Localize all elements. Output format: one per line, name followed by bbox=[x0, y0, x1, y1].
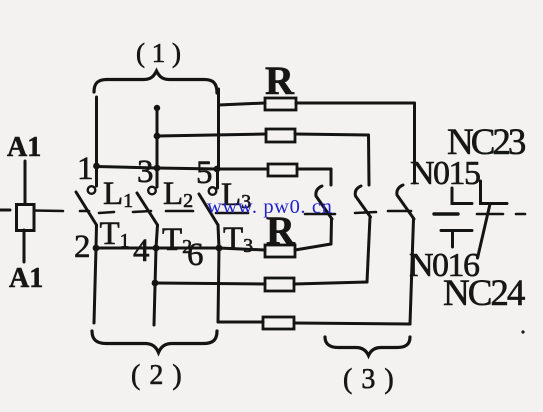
label 1 bbox=[77, 151, 94, 187]
wire stub pole3 bbox=[216, 169, 219, 188]
svg-text:N015: N015 bbox=[410, 155, 480, 192]
wire pole3 top corner to row1 bbox=[217, 106, 220, 169]
wire row2 right bbox=[295, 134, 369, 135]
brace (3) bottom bbox=[325, 337, 410, 356]
label T3 bbox=[223, 221, 253, 257]
wire contact C bottom bbox=[410, 219, 414, 324]
wire pole1 top bbox=[95, 97, 98, 166]
watermark www.pw0.cn bbox=[207, 196, 332, 218]
wire pole1 tail bbox=[94, 248, 96, 323]
wire row4 right bbox=[295, 244, 331, 250]
contact NO15 T actuator bbox=[441, 231, 472, 248]
node junction row2 tap bbox=[154, 133, 161, 140]
contact NC24 blade bbox=[478, 204, 491, 258]
label (2) bbox=[131, 360, 183, 391]
wire row2 left bbox=[157, 134, 266, 136]
svg-text:2: 2 bbox=[74, 229, 91, 265]
label R middle bbox=[266, 208, 296, 253]
wire edge dash left bbox=[0, 209, 10, 212]
wire contact A top bbox=[330, 169, 333, 185]
label T1 bbox=[100, 216, 130, 252]
resistor R row3 bbox=[268, 164, 297, 176]
wire pole2 tail bbox=[154, 248, 156, 325]
wire coil bottom lead bbox=[23, 230, 26, 262]
label L2 bbox=[163, 176, 193, 212]
label L1 bbox=[103, 176, 133, 212]
node junction row5 tap bbox=[152, 280, 159, 287]
label (1) bbox=[136, 38, 181, 68]
wire row6 right bbox=[294, 323, 410, 324]
wire bus 1-3-5 bbox=[97, 167, 218, 170]
wire pole1 lower bbox=[95, 225, 99, 248]
contact B blade bbox=[355, 186, 370, 217]
resistor R row1 bbox=[265, 98, 296, 110]
wire row6 left bbox=[218, 321, 263, 324]
node junction 6 bbox=[216, 245, 223, 252]
contact circle pole3 bbox=[209, 187, 217, 195]
node junction 4 bbox=[153, 245, 160, 252]
label NC23 bbox=[447, 122, 526, 163]
wire pole2 lower bbox=[156, 225, 158, 248]
wire contact A bottom bbox=[330, 219, 334, 244]
svg-text:6: 6 bbox=[187, 237, 204, 273]
svg-text:( 3 ): ( 3 ) bbox=[343, 364, 395, 395]
wire stub pole2 bbox=[156, 168, 159, 187]
wire bus 2-4-6 bbox=[96, 247, 219, 250]
svg-text:3: 3 bbox=[137, 154, 154, 190]
label 3 bbox=[137, 154, 154, 190]
node A1 bottom label bbox=[9, 263, 43, 294]
wire row4 left bbox=[219, 248, 265, 250]
wire pole2 top bbox=[156, 108, 159, 168]
wire linkage from coil bbox=[34, 209, 63, 212]
wire contact C top bbox=[413, 103, 416, 183]
wire pole3 lower bbox=[218, 225, 219, 248]
brace (1) top bbox=[94, 71, 217, 93]
svg-text:A1: A1 bbox=[9, 263, 43, 294]
node pole2 top dot bbox=[154, 105, 160, 111]
label NC24 bbox=[443, 273, 525, 314]
resistor R row4 bbox=[265, 245, 295, 257]
contact circle pole2 bbox=[148, 187, 156, 195]
wire pole3 tail bbox=[218, 248, 219, 322]
resistor R row2 bbox=[266, 129, 295, 142]
svg-text:1: 1 bbox=[77, 151, 94, 187]
contact NO15 left terminal bbox=[452, 188, 472, 204]
label 2 bbox=[74, 229, 91, 265]
label NO16 bbox=[409, 247, 479, 284]
wire pole3 top stub bbox=[217, 89, 220, 106]
wire row1 right bbox=[296, 102, 415, 105]
node junction 1 bbox=[93, 163, 100, 170]
label NO15 bbox=[410, 155, 480, 192]
svg-text:4: 4 bbox=[133, 233, 150, 269]
switch blade pole1 bbox=[76, 192, 97, 225]
wire row3 left bbox=[217, 168, 268, 171]
contact C blade bbox=[397, 185, 414, 219]
resistor R row5 bbox=[265, 278, 294, 291]
wire contact B top bbox=[367, 135, 371, 185]
contact A blade bbox=[316, 186, 332, 219]
svg-text:5: 5 bbox=[196, 155, 213, 191]
wire linkage dashes bbox=[80, 211, 525, 214]
switch blade pole3 bbox=[199, 194, 218, 225]
contact circle pole1 bbox=[88, 186, 96, 194]
svg-text:www. pw0. cn: www. pw0. cn bbox=[207, 196, 332, 218]
svg-text:NC24: NC24 bbox=[443, 273, 525, 314]
node junction 5 bbox=[214, 166, 221, 173]
label 5 bbox=[196, 155, 213, 191]
wire stub pole1 bbox=[95, 166, 98, 186]
node junction 2 bbox=[93, 245, 100, 252]
coil A1 bbox=[17, 205, 35, 231]
label T2 bbox=[162, 222, 192, 258]
wire row3 right bbox=[297, 168, 331, 171]
label (3) bbox=[343, 364, 395, 395]
svg-text:A1: A1 bbox=[7, 132, 41, 163]
wire row5 left bbox=[155, 283, 265, 284]
ink speck bbox=[521, 330, 524, 333]
wire contact B bottom bbox=[367, 217, 370, 282]
wire row1 left bbox=[219, 103, 266, 105]
resistor R row6 bbox=[263, 317, 294, 329]
label 4 bbox=[133, 233, 150, 269]
label R top bbox=[265, 58, 295, 103]
node junction 3 bbox=[154, 165, 161, 172]
node A1 top label bbox=[7, 132, 41, 163]
label L3 bbox=[221, 177, 251, 213]
svg-text:( 1 ): ( 1 ) bbox=[136, 38, 181, 68]
contact NC24 right terminal bbox=[481, 181, 508, 204]
switch blade pole2 bbox=[137, 193, 158, 225]
wire coil top lead bbox=[24, 161, 27, 204]
label 6 bbox=[187, 237, 204, 273]
svg-text:R: R bbox=[265, 58, 295, 103]
wire row5 right bbox=[294, 282, 367, 284]
brace (2) bottom bbox=[92, 331, 217, 353]
svg-text:( 2 ): ( 2 ) bbox=[131, 360, 183, 391]
